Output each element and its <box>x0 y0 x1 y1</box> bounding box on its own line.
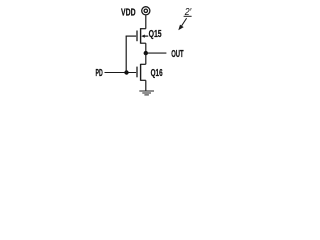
Q15 bulk lead <box>144 35 149 37</box>
wire VDD terminal to Q15 drain <box>145 15 147 28</box>
transistor Q16 <box>137 64 146 81</box>
Q15 drain stub <box>141 28 146 30</box>
Q15 source stub <box>141 42 146 44</box>
callout arrowhead <box>178 25 183 31</box>
svg-text:Q16: Q16 <box>151 68 163 79</box>
svg-text:PD: PD <box>96 68 103 79</box>
node OUT junction dot <box>144 51 148 55</box>
svg-text:OUT: OUT <box>171 49 183 60</box>
VDD terminal (double circle) <box>142 7 150 15</box>
ground <box>139 91 154 95</box>
Q16 gate bar <box>136 67 138 78</box>
svg-text:Q15: Q15 <box>149 29 162 40</box>
wire OUT node to Q16 drain <box>145 53 147 64</box>
wire Q15 source to OUT node <box>145 43 147 53</box>
Q16 source stub <box>141 79 146 81</box>
Q16 channel bar <box>140 64 142 81</box>
transistor Q15 <box>126 28 149 44</box>
wire Q16 source to ground <box>145 80 147 90</box>
svg-text:VDD: VDD <box>121 8 136 19</box>
wire OUT node to label <box>148 52 167 54</box>
node PD junction dot <box>124 70 128 74</box>
Q15 gate bar <box>136 31 138 42</box>
Q15 channel bar <box>140 28 142 44</box>
Q15 bulk arrowhead <box>141 35 145 38</box>
Q15 gate lead <box>126 35 137 37</box>
callout underline <box>184 15 192 17</box>
wire PD to Q16 gate <box>105 72 137 74</box>
Q16 drain stub <box>141 63 146 65</box>
callout arrow line <box>182 18 187 26</box>
wire PD junction up to Q15 gate <box>125 36 127 72</box>
